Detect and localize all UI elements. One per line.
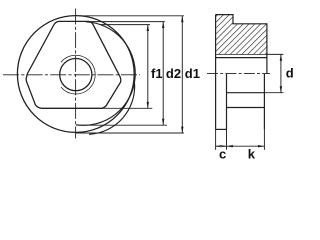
- collar edge: [226, 74, 228, 130]
- hub line lower: [227, 107, 265, 109]
- extension line d2 top: [89, 21, 165, 23]
- extension line d bottom: [264, 92, 283, 94]
- hatched section area: [216, 15, 267, 55]
- extension line d top: [267, 53, 284, 55]
- dimension f1: [147, 25, 149, 109]
- svg-text:d2: d2: [166, 66, 181, 81]
- thread arc: [61, 55, 95, 94]
- centerline horizontal left view: [3, 74, 140, 76]
- extension line f1 top: [100, 24, 150, 26]
- svg-text:c: c: [219, 147, 226, 160]
- dimension c: [216, 145, 227, 147]
- extension line k right: [263, 129, 265, 149]
- collar bottom edge: [216, 128, 227, 130]
- left face: [215, 15, 217, 130]
- extension line c left: [215, 129, 217, 149]
- axis centerline right view: [207, 73, 270, 75]
- grip profile outline: [26, 21, 121, 108]
- svg-text:k: k: [248, 147, 256, 160]
- dimension d2: [162, 22, 164, 126]
- section outline top: [216, 15, 267, 74]
- extension line f1 bottom: [102, 107, 152, 109]
- right face lower: [263, 74, 265, 130]
- extension line d1 top: [79, 15, 184, 17]
- extension line d1 bottom: [76, 132, 184, 134]
- extension line d2 bottom: [76, 124, 167, 126]
- hole circle: [60, 59, 92, 91]
- dimension d: [280, 54, 282, 92]
- svg-text:d: d: [286, 66, 294, 81]
- thread line section: [216, 53, 267, 55]
- thread line lower: [227, 92, 265, 94]
- dimension k: [227, 145, 265, 147]
- centerline vertical left view: [75, 9, 77, 139]
- extension line ck middle: [226, 129, 228, 149]
- lobe arc bottom right: [89, 83, 135, 134]
- hole line section: [216, 57, 267, 59]
- svg-text:f1: f1: [151, 66, 163, 81]
- dimension d1: [181, 16, 183, 133]
- circle d1 outline: [17, 16, 134, 133]
- svg-text:d1: d1: [185, 66, 200, 81]
- circle d2 arc: [76, 22, 135, 126]
